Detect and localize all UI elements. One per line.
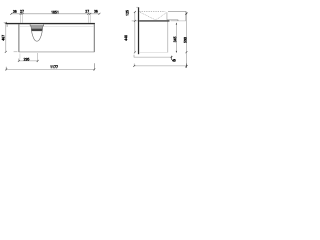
lower depth right tick [185,64,187,68]
label 27 left [20,10,23,12]
467 bottom slash [5,51,7,53]
left dim mid extension [132,20,138,22]
wall line [138,7,139,54]
ext line from bowl centre down [37,53,39,62]
label 295 [24,58,29,60]
tick slash right end [98,13,100,15]
295 left slash [18,60,20,62]
bowl interior mid shading [31,27,42,29]
extension line x20.7 [20,14,22,23]
1177 right slash [93,68,95,70]
basin top front solid [168,10,186,12]
left height dimension line [134,12,136,52]
right dim top slash [185,13,187,15]
extension line x88.3 [87,14,89,23]
label 27 right [86,10,89,12]
depth dimension upper [134,56,172,58]
1177 left slash [5,68,7,70]
label total height rotated [184,37,186,42]
tick slash x22.6 [22,13,24,15]
tick slash x88.3 [87,13,89,15]
small label 45 [172,59,175,61]
basin underside thin [171,20,186,22]
label 36 right [94,10,97,12]
cabinet right edge [93,24,95,52]
label mid dimension rotated [174,37,176,42]
drawer top gap line [19,26,94,28]
extension line x90.2 [89,14,91,23]
label basin height rotated [126,10,128,15]
right total height dimension [185,12,187,66]
right dim bottom slash [186,51,188,53]
left dim bottom slash [134,51,136,53]
lower depth left slash [133,65,135,67]
small leader with down arrow [167,19,178,21]
basin rim bottom shadow [30,25,44,27]
depth dimension lower [134,65,186,67]
upper depth right tick [171,56,173,60]
cabinet bottom edge [139,51,168,53]
leader extension from basin rim front [166,12,168,20]
295 right slash [37,60,39,62]
ext line from cabinet corner down [19,54,21,59]
label 36 left [13,10,16,12]
tick slash x20.7 [20,13,22,15]
top dimension line [11,13,100,15]
basin rim right wall [43,24,45,26]
cabinet left edge [18,24,20,52]
lower depth left tick [133,64,135,67]
extension line x22.6 [22,14,24,23]
lower depth right slash [185,65,187,67]
label cabinet height rotated [125,35,127,40]
label 1051 [52,11,58,13]
1177 dim line [6,68,94,70]
467 bottom extension [14,51,18,53]
bowl interior dark band [31,29,42,32]
tick slash x90.2 [89,13,91,15]
cabinet front edge [167,22,169,53]
cabinet bottom edge [19,51,94,53]
basin front face [185,11,187,20]
1177 left tick [5,67,7,71]
upper depth left corner tick [133,55,135,58]
upper depth right slash [171,56,173,58]
cabinet top thick line [139,20,169,21]
tick slash left end [10,13,12,15]
left dim top slash [134,11,136,13]
basin top hidden (dashed) [139,10,165,12]
label 467 rotated [2,35,4,40]
wall top tick [136,6,137,9]
467 top slash [5,22,7,24]
washbasin countertop slab [6,23,95,24]
bowl outline [31,26,43,41]
467 dimension line [5,23,7,52]
295 left tick [18,59,20,62]
bowl hidden V profile [140,12,167,19]
295 dim line [19,60,38,62]
467 top extension [4,22,7,24]
1177 right tick [93,63,95,70]
left dim mid slash [134,20,136,22]
mid height dimension with up arrow [175,23,177,53]
label 1177 [51,66,58,68]
basin rim left wall [29,24,31,26]
tick under countertop left end [6,24,8,27]
